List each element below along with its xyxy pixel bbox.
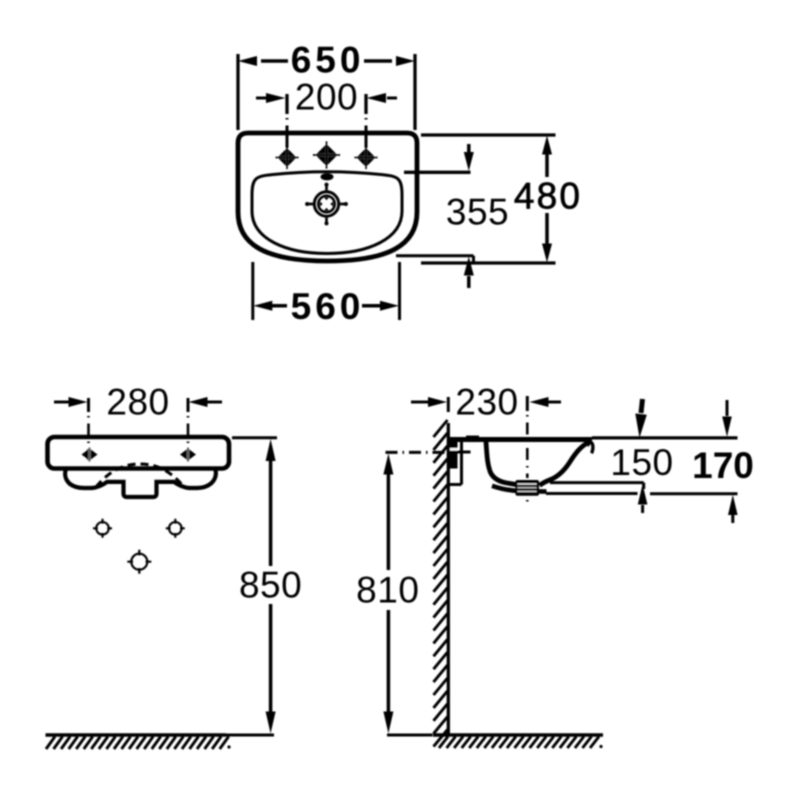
svg-text:650: 650	[291, 40, 365, 81]
svg-text:480: 480	[514, 175, 582, 216]
svg-text:170: 170	[692, 445, 754, 486]
svg-text:150: 150	[610, 442, 673, 483]
svg-text:280: 280	[106, 382, 169, 423]
svg-text:230: 230	[455, 382, 518, 423]
svg-text:560: 560	[291, 286, 365, 327]
svg-text:200: 200	[295, 76, 358, 117]
svg-text:810: 810	[356, 570, 419, 611]
svg-text:355: 355	[446, 192, 509, 233]
svg-text:850: 850	[239, 564, 302, 605]
